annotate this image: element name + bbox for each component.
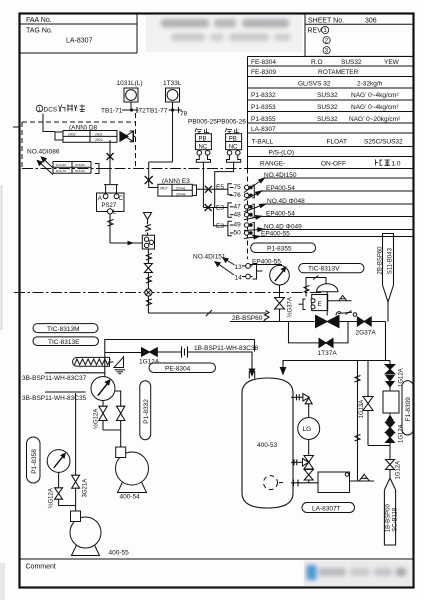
wire from note to D8 bbox=[43, 114, 55, 132]
svg-text:49: 49 bbox=[234, 222, 242, 229]
svg-text:3B-BSP11-WH-83C35: 3B-BSP11-WH-83C35 bbox=[22, 395, 87, 402]
svg-text:NO.4D Φ048: NO.4D Φ048 bbox=[267, 198, 305, 205]
pressure gauge PI-8355 bbox=[270, 265, 290, 297]
svg-text:1: 1 bbox=[38, 107, 41, 113]
svg-text:ROTAMETER: ROTAMETER bbox=[318, 69, 359, 76]
svg-text:NAG’ 0~4kg/cm²: NAG’ 0~4kg/cm² bbox=[351, 92, 399, 99]
svg-text:NAG’ 0~4kg/cm²: NAG’ 0~4kg/cm² bbox=[351, 104, 399, 111]
svg-text:D16-70: D16-70 bbox=[56, 169, 66, 173]
svg-text:400-53: 400-53 bbox=[257, 442, 278, 449]
tank side nozzle upper bbox=[291, 394, 303, 400]
tank 400-53 bbox=[242, 378, 293, 508]
line solenoid down with breaks bbox=[146, 249, 152, 313]
svg-text:TB1-71: TB1-71 bbox=[101, 108, 123, 115]
svg-text:1B-BSP11-WH-83C38: 1B-BSP11-WH-83C38 bbox=[194, 345, 259, 352]
svg-text:FE-8309: FE-8309 bbox=[251, 69, 276, 76]
pill PI-8358 bbox=[27, 437, 41, 483]
svg-text:3B-BSP11-WH-83C37: 3B-BSP11-WH-83C37 bbox=[22, 375, 87, 382]
comment bar bbox=[20, 558, 414, 560]
svg-text:EP400-54: EP400-54 bbox=[266, 185, 295, 192]
pill PI-8355 bbox=[251, 243, 316, 253]
svg-text:NO.4D Φ049: NO.4D Φ049 bbox=[264, 223, 302, 230]
svg-text:D16-69: D16-69 bbox=[56, 163, 66, 167]
svg-text:2G37A: 2G37A bbox=[356, 330, 377, 337]
svg-text:½G37A: ½G37A bbox=[287, 297, 294, 317]
svg-text:13: 13 bbox=[235, 264, 243, 271]
X mark on PS27 wire bbox=[107, 153, 114, 160]
svg-text:GL/SVS 32: GL/SVS 32 bbox=[298, 81, 331, 88]
heater pipe lines bbox=[105, 340, 255, 378]
svg-text:R.O: R.O bbox=[311, 59, 323, 66]
valve 3G21A bbox=[72, 475, 80, 488]
terminal block DI086 bbox=[53, 162, 91, 174]
svg-text:TIC-8313M: TIC-8313M bbox=[47, 326, 80, 333]
svg-text:400-55: 400-55 bbox=[109, 550, 130, 557]
spec table right bbox=[248, 56, 414, 168]
svg-text:1B-BSP00: 1B-BSP00 bbox=[386, 504, 392, 533]
wire PS27 to solenoid bbox=[108, 214, 143, 243]
svg-text:Comment: Comment bbox=[26, 564, 56, 571]
arrow into tank left nozzle bbox=[249, 363, 254, 379]
svg-text:50: 50 bbox=[234, 230, 242, 237]
svg-text:NO.4DI086: NO.4DI086 bbox=[27, 149, 60, 156]
svg-text:75: 75 bbox=[234, 184, 242, 191]
svg-text:YEW: YEW bbox=[384, 59, 400, 66]
svg-text:306: 306 bbox=[365, 17, 377, 24]
PG manifold: gauge PI-8332 area bbox=[91, 377, 115, 401]
svg-text:D16-65: D16-65 bbox=[75, 163, 85, 167]
svg-text:½G12A: ½G12A bbox=[48, 488, 55, 508]
svg-text:½G12A: ½G12A bbox=[93, 409, 100, 429]
svg-text:E3: E3 bbox=[216, 205, 224, 212]
converter bowtie after D8 bbox=[120, 131, 134, 142]
valve on solenoid line bbox=[144, 264, 152, 273]
level gauge LG bbox=[298, 418, 320, 440]
instrument 1T33L bbox=[166, 88, 180, 110]
svg-text:EP400-55: EP400-55 bbox=[261, 231, 290, 238]
svg-text:400-54: 400-54 bbox=[120, 494, 141, 501]
svg-text:47: 47 bbox=[234, 203, 242, 210]
rotameter FI-8309 bbox=[383, 387, 399, 415]
svg-text:NC: NC bbox=[199, 144, 208, 150]
gauge PI-8358 bbox=[47, 450, 70, 473]
svg-text:SUS32: SUS32 bbox=[317, 104, 338, 111]
DCS boundary dashes bbox=[13, 113, 322, 293]
svg-text:D16-66: D16-66 bbox=[75, 169, 85, 173]
three-way drain valve bbox=[303, 456, 314, 470]
svg-text:S25C/SUS32: S25C/SUS32 bbox=[364, 139, 403, 146]
valve 2G37A bbox=[357, 317, 371, 326]
svg-text:27H42: 27H42 bbox=[176, 192, 186, 196]
pump 400-55 bbox=[70, 511, 101, 556]
pill TIC-8313E bbox=[33, 337, 99, 346]
angle valve to LG bbox=[303, 394, 312, 418]
control valve TIC-8313V bbox=[312, 284, 338, 316]
valve 1/2G37A bbox=[275, 298, 285, 310]
svg-text:1G12A: 1G12A bbox=[139, 359, 160, 366]
svg-text:T-BALL: T-BALL bbox=[252, 139, 274, 146]
vortex breaker dashed circle bbox=[264, 476, 286, 490]
pump 400-54 bbox=[116, 447, 149, 493]
svg-text:LA-8307: LA-8307 bbox=[66, 38, 93, 45]
orifice flanges bbox=[157, 347, 187, 358]
valve 1G13A bypass bbox=[363, 397, 373, 411]
svg-text:2B-BSP60: 2B-BSP60 bbox=[378, 246, 384, 275]
svg-text:P1-8358: P1-8358 bbox=[31, 449, 38, 474]
crossing circle on DCS boundary bbox=[145, 289, 152, 296]
svg-text:2H21: 2H21 bbox=[95, 132, 103, 136]
tank feed right line bbox=[283, 322, 386, 363]
svg-text:1T37A: 1T37A bbox=[318, 350, 338, 357]
svg-text:27H41: 27H41 bbox=[176, 187, 186, 191]
reducer below rotameter bbox=[386, 416, 394, 423]
svg-text:ON-OFF: ON-OFF bbox=[321, 161, 346, 168]
svg-text:P1-8332: P1-8332 bbox=[143, 399, 150, 424]
valve 1G12A top of rotameter bbox=[385, 365, 395, 375]
signal line NO.4DI150 bbox=[259, 178, 414, 237]
svg-text:S11-B043: S11-B043 bbox=[387, 247, 393, 274]
svg-text:1T33L: 1T33L bbox=[163, 80, 182, 87]
off-page connector 1B-BSP00 / SC-B119 bbox=[384, 470, 395, 546]
wire down to PS27 bbox=[109, 140, 111, 184]
fail-open marks bbox=[336, 311, 357, 317]
pill LA-8307T bbox=[302, 503, 355, 513]
valves 1G12A below rotameter bbox=[386, 423, 395, 443]
off-page connector 2B-BSP60 / S11-B043 bbox=[383, 234, 394, 322]
svg-text:F1-8309: F1-8309 bbox=[405, 397, 412, 422]
svg-text:SUS32: SUS32 bbox=[317, 92, 338, 99]
svg-text:FLOAT: FLOAT bbox=[327, 139, 347, 146]
svg-text:78: 78 bbox=[180, 111, 188, 118]
svg-text:A: A bbox=[98, 196, 102, 202]
pressure switch PS27 bbox=[97, 185, 125, 214]
stamp blur area bbox=[146, 15, 302, 52]
svg-text:P1-8355: P1-8355 bbox=[251, 116, 276, 123]
pill PE-8304 bbox=[149, 363, 216, 373]
svg-text:2-32kg/h: 2-32kg/h bbox=[357, 81, 383, 88]
svg-text:1.0: 1.0 bbox=[392, 161, 401, 168]
svg-text:1G13A: 1G13A bbox=[359, 400, 365, 419]
svg-text:LG: LG bbox=[303, 426, 312, 433]
wire TB terminal row bbox=[122, 107, 182, 113]
tank bottom nozzle to heater box bbox=[291, 480, 318, 487]
svg-text:SUS32: SUS32 bbox=[317, 116, 338, 123]
bypass with 1T37A bbox=[289, 322, 349, 343]
svg-text:REV: REV bbox=[308, 28, 323, 35]
pipe to control valve bbox=[148, 310, 314, 322]
wire E3 to E5 bracket bbox=[197, 188, 228, 190]
steam trap at heater outlet bbox=[114, 356, 125, 374]
svg-text:E: E bbox=[318, 301, 323, 308]
X mark before E5 bbox=[205, 186, 212, 193]
svg-text:P1-8332: P1-8332 bbox=[251, 92, 276, 99]
SHEET No. box bbox=[305, 14, 414, 57]
svg-text:PB: PB bbox=[199, 136, 207, 142]
svg-text:RANGE-: RANGE- bbox=[260, 161, 285, 168]
svg-text:FAA No.: FAA No. bbox=[26, 17, 52, 24]
svg-text:DCS: DCS bbox=[44, 107, 58, 114]
valve 1G12A outlet bbox=[386, 460, 395, 470]
svg-text:TIC-8313V: TIC-8313V bbox=[308, 266, 340, 273]
valve 1/2G12A drain bbox=[55, 488, 63, 499]
rotameter line bottom bbox=[368, 443, 390, 460]
svg-text:C: C bbox=[119, 196, 124, 202]
solenoid valve box bbox=[142, 235, 154, 249]
pill FI-8309 bbox=[402, 381, 413, 435]
svg-text:P1-8355: P1-8355 bbox=[267, 245, 292, 252]
svg-text:PB005-25PB005-26: PB005-25PB005-26 bbox=[188, 119, 246, 126]
bracket DI086 to line bbox=[95, 164, 110, 174]
pill TIC-8313V bbox=[299, 264, 364, 273]
svg-text:NC: NC bbox=[229, 144, 238, 150]
heater box bbox=[318, 472, 350, 493]
svg-text:SUS32: SUS32 bbox=[341, 59, 362, 66]
pipe label 3B-BSP11-WH-83C35 bbox=[45, 391, 86, 393]
svg-text:FE-8304: FE-8304 bbox=[251, 59, 276, 66]
svg-text:2H02: 2H02 bbox=[68, 132, 76, 136]
svg-text:PS27: PS27 bbox=[102, 203, 117, 209]
pill PI-8332 bbox=[140, 381, 151, 440]
svg-text:3G21A: 3G21A bbox=[83, 479, 89, 498]
positioner output line with A symbol bbox=[328, 296, 352, 302]
svg-text:SC-B119: SC-B119 bbox=[393, 507, 399, 532]
arrows to DI086 bbox=[37, 157, 53, 175]
svg-text:9R17: 9R17 bbox=[160, 187, 168, 191]
svg-text:PE-8304: PE-8304 bbox=[165, 366, 191, 373]
pipe to tank nozzle bbox=[188, 352, 253, 363]
svg-text:1031L(L): 1031L(L) bbox=[117, 80, 143, 87]
svg-text:LA-8307: LA-8307 bbox=[251, 126, 276, 133]
svg-text:2B-BSP60: 2B-BSP60 bbox=[232, 315, 263, 322]
svg-text:PB: PB bbox=[229, 136, 237, 142]
svg-text:TIC-8313E: TIC-8313E bbox=[48, 339, 80, 346]
tank side nozzle lower bbox=[291, 459, 303, 465]
svg-text:76: 76 bbox=[234, 192, 242, 199]
svg-text:LA-8307T: LA-8307T bbox=[312, 506, 341, 513]
LG bottom line bbox=[308, 440, 310, 456]
comment blur box bbox=[304, 561, 413, 587]
X mark on D8 wire bbox=[145, 176, 153, 184]
svg-text:P1-8353: P1-8353 bbox=[251, 104, 276, 111]
svg-text:TAG No.: TAG No. bbox=[26, 27, 53, 34]
svg-text:NAG’ 0~20kg/cm²: NAG’ 0~20kg/cm² bbox=[349, 116, 401, 123]
svg-text:NO.4DI150: NO.4DI150 bbox=[264, 172, 297, 179]
X mark before E3 47/48 bbox=[205, 204, 212, 211]
svg-text:1G12A: 1G12A bbox=[399, 424, 405, 443]
right column feed from y361 bbox=[355, 361, 391, 482]
svg-text:48: 48 bbox=[234, 211, 242, 218]
wire D8 out to E3 bbox=[134, 110, 173, 188]
svg-text:TB1-77: TB1-77 bbox=[146, 108, 168, 115]
pipe label 3B-BSP11-WH-83C37 bbox=[45, 372, 105, 374]
svg-text:SHEET No.: SHEET No. bbox=[308, 17, 344, 24]
instrument 1031L(L) bbox=[124, 88, 138, 110]
svg-text:P/S-(LO): P/S-(LO) bbox=[269, 149, 295, 156]
FAA/TAG title table bbox=[20, 14, 138, 53]
twin valves 1/2G12A bbox=[99, 406, 125, 420]
vent triangle above solenoid bbox=[144, 213, 152, 236]
control valve body bbox=[316, 315, 340, 327]
contact pairs with slashes bbox=[244, 185, 254, 236]
svg-text:1G12A: 1G12A bbox=[396, 461, 402, 480]
arrows NO.4DI151 bbox=[215, 258, 235, 275]
reducers above rotameter bbox=[386, 376, 394, 388]
svg-text:E3: E3 bbox=[216, 223, 224, 230]
pill TIC-8313M bbox=[33, 324, 98, 333]
svg-text:NO.4DI151: NO.4DI151 bbox=[193, 254, 226, 261]
svg-text:E5: E5 bbox=[216, 184, 224, 191]
svg-text:EP400-54: EP400-54 bbox=[266, 211, 295, 218]
valve 1G12A on pipe to tank bbox=[142, 348, 158, 357]
box outlet with A strainer bbox=[350, 474, 375, 481]
pushbutton PB005-26 bbox=[203, 134, 241, 226]
node 1 DCS removal note bbox=[36, 105, 85, 114]
svg-text:72: 72 bbox=[139, 108, 147, 115]
electric heater bbox=[73, 357, 114, 366]
lower drain valve bbox=[304, 470, 313, 483]
svg-text:1G12A: 1G12A bbox=[399, 368, 405, 387]
svg-text:14: 14 bbox=[235, 275, 243, 282]
svg-text:2H22: 2H22 bbox=[95, 138, 103, 142]
